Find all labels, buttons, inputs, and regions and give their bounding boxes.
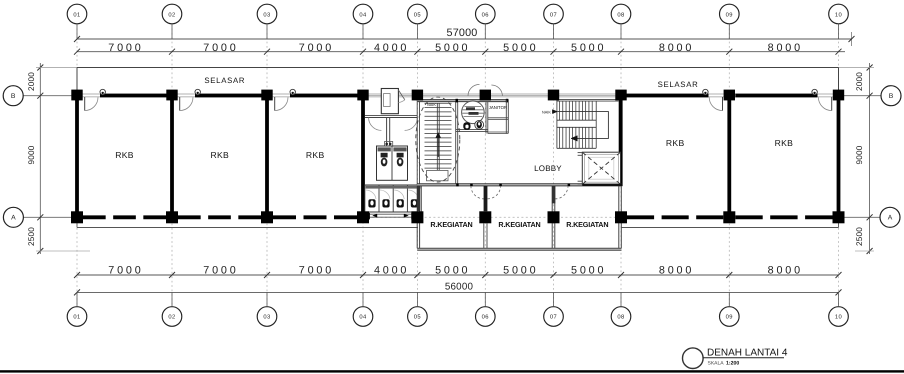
svg-text:05: 05: [414, 11, 421, 18]
lower edge left wing: [77, 227, 418, 229]
svg-text:2000: 2000: [27, 72, 36, 91]
svg-text:4000: 4000: [374, 265, 409, 277]
column squares row A: [71, 211, 83, 223]
svg-text:A: A: [11, 215, 16, 222]
svg-text:06: 06: [482, 11, 489, 18]
grid bubble 03 bottom: [257, 307, 277, 327]
svg-text:7000: 7000: [299, 265, 334, 277]
urinal fixture: [463, 122, 470, 130]
grid line column 05: [416, 24, 418, 307]
left stair ellipse: [416, 97, 460, 182]
dimension row bottom ticks: [74, 272, 80, 278]
row A wall bay 01-02: [83, 215, 166, 219]
row A wall bay 03-04: [273, 215, 357, 219]
svg-text:9000: 9000: [27, 145, 36, 164]
lobby door arc right of column 06: [488, 186, 501, 199]
kegiatan partition column 07: [551, 186, 553, 248]
svg-text:NAIK: NAIK: [542, 110, 551, 114]
kegiatan east wall: [618, 186, 620, 248]
svg-text:RKB: RKB: [306, 150, 325, 160]
grid bubble 01 top: [67, 4, 87, 24]
row B wall face lines: [77, 93, 839, 95]
svg-text:SELASAR: SELASAR: [204, 76, 245, 85]
svg-text:07: 07: [550, 11, 557, 18]
grid bubble 02 top: [162, 4, 182, 24]
wc fixture lower 2: [380, 190, 390, 199]
sheet frame bottom: [0, 370, 904, 372]
svg-text:SKALA: SKALA: [708, 361, 725, 367]
svg-text:10: 10: [835, 11, 842, 18]
door room 1 row B: [84, 97, 86, 111]
svg-text:NAIK: NAIK: [427, 103, 436, 107]
grid line column 07: [553, 24, 555, 307]
svg-text:10: 10: [835, 314, 842, 321]
title underline: [703, 357, 784, 359]
left stair steps: [425, 102, 452, 104]
wall column 03 vertical: [265, 97, 269, 215]
svg-text:R.KEGIATAN: R.KEGIATAN: [498, 220, 540, 229]
grid bubble 05 bottom: [408, 307, 428, 327]
right stair arrow path: [558, 112, 609, 139]
kegiatan partition column 06: [484, 186, 488, 211]
svg-text:2000: 2000: [855, 72, 864, 91]
wc fixture lower 3: [394, 190, 404, 199]
grid bubble 10 top: [829, 4, 849, 24]
svg-text:5000: 5000: [435, 42, 470, 54]
grid line column 02: [171, 24, 173, 92]
utility block east wall: [505, 100, 507, 134]
wall column 10 vertical: [837, 97, 841, 215]
grid bubble A right: [880, 207, 900, 227]
grid bubble 04 bottom: [353, 307, 373, 327]
svg-text:8000: 8000: [768, 265, 803, 277]
grid line column 06: [484, 24, 486, 307]
svg-text:09: 09: [726, 314, 733, 321]
pipe chase: [386, 118, 388, 147]
grid bubble 01 bottom: [67, 307, 87, 327]
svg-text:08: 08: [617, 314, 624, 321]
grid line column 03: [266, 24, 268, 92]
lobby door arc left of column 06: [471, 186, 484, 199]
dimension row bottom line: [77, 274, 839, 276]
grid bubble 03 top: [257, 4, 277, 24]
right stair steps: [557, 98, 619, 100]
svg-text:09: 09: [726, 11, 733, 18]
stair east wall: [455, 100, 457, 186]
svg-text:5000: 5000: [503, 42, 538, 54]
svg-text:A: A: [888, 215, 893, 222]
svg-text:07: 07: [550, 314, 557, 321]
grid bubble A left: [3, 207, 23, 227]
dimension row top line: [77, 51, 845, 53]
svg-text:01: 01: [73, 314, 80, 321]
grid line row A: [24, 216, 78, 218]
door right wing 2 row B: [831, 97, 833, 111]
svg-text:SELASAR: SELASAR: [658, 80, 699, 89]
dimension 57000 top: [77, 38, 852, 40]
svg-text:RKB: RKB: [211, 150, 230, 160]
grid bubble 09 top: [720, 4, 740, 24]
svg-text:04: 04: [359, 314, 367, 321]
title circle: [683, 348, 704, 369]
selasar outer edge: [77, 67, 839, 69]
round basin: [462, 101, 485, 124]
svg-text:03: 03: [263, 11, 270, 18]
wall column 04 vertical: [361, 97, 365, 215]
grid bubble 06 bottom: [476, 307, 496, 327]
grid line column 09: [728, 24, 730, 92]
svg-text:7000: 7000: [203, 42, 238, 54]
dimension row top ticks: [74, 49, 80, 55]
row B wall: [100, 94, 167, 98]
wc stall pair box: [377, 146, 408, 180]
svg-text:7000: 7000: [108, 42, 143, 54]
void shaft box: [582, 152, 620, 184]
svg-text:JANITOR: JANITOR: [489, 105, 507, 110]
shaft box: [381, 89, 398, 114]
wall column 02 vertical: [170, 97, 174, 215]
dimension line right: [869, 63, 871, 254]
svg-text:7000: 7000: [203, 265, 238, 277]
svg-text:5000: 5000: [503, 265, 538, 277]
svg-text:RKB: RKB: [666, 138, 685, 148]
lobby south wall: [417, 184, 621, 186]
svg-text:LOBBY: LOBBY: [534, 164, 562, 173]
void shaft door stubs: [578, 152, 583, 154]
svg-text:01: 01: [73, 11, 80, 18]
void shaft bottom edge: [582, 184, 621, 186]
dimension 56000 bottom: [77, 291, 839, 293]
svg-text:4000: 4000: [374, 42, 409, 54]
selasar door arcs column 06: [468, 84, 480, 96]
grid line column 01: [76, 24, 78, 92]
wc stall row box: [365, 185, 421, 212]
svg-text:08: 08: [617, 11, 624, 18]
svg-text:56000: 56000: [445, 281, 474, 292]
left stair arrow: [437, 136, 439, 157]
lower edge right wing: [621, 227, 839, 229]
svg-text:04: 04: [359, 11, 367, 18]
svg-text:B: B: [889, 93, 894, 100]
utility block south wall: [456, 129, 488, 131]
row A wall bay 08-09: [627, 215, 723, 219]
svg-text:2500: 2500: [855, 227, 864, 246]
grid line row B: [23, 95, 77, 97]
svg-text:8000: 8000: [768, 42, 803, 54]
wc fixture beside basin: [475, 120, 484, 129]
sliding door toilets: [370, 213, 412, 215]
column squares row B: [71, 90, 82, 101]
door right wing 1 row B: [722, 97, 724, 111]
svg-text:R.KEGIATAN: R.KEGIATAN: [566, 220, 608, 229]
dimension line left: [39, 63, 41, 254]
wc fixture lower 4: [408, 190, 418, 199]
wall column 08 vertical: [619, 97, 623, 186]
grid bubble 05 top: [408, 4, 428, 24]
svg-text:5000: 5000: [571, 265, 606, 277]
grid bubble 04 top: [353, 4, 373, 24]
wall column 09 vertical: [727, 97, 731, 215]
grid bubble 08 bottom: [611, 307, 631, 327]
toilet door left: [369, 118, 382, 131]
wall column 01 vertical: [75, 97, 79, 215]
void shaft diagonals: [582, 152, 620, 184]
svg-text:7000: 7000: [299, 42, 334, 54]
grid line column 08: [620, 24, 622, 307]
svg-text:DENAH LANTAI 4: DENAH LANTAI 4: [707, 348, 788, 359]
grid bubble 07 top: [544, 4, 564, 24]
svg-text:02: 02: [168, 11, 175, 18]
toilet door right: [405, 118, 418, 131]
grid bubble B right: [881, 86, 901, 106]
wc fixture upper 1: [381, 153, 388, 158]
toilet entry wall: [365, 115, 417, 117]
svg-text:8000: 8000: [659, 42, 694, 54]
svg-text:03: 03: [263, 314, 270, 321]
stair west wall: [416, 100, 418, 186]
svg-text:RKB: RKB: [775, 138, 794, 148]
svg-text:1:200: 1:200: [726, 361, 739, 367]
janitor partition: [485, 102, 487, 134]
grid bubble 09 bottom: [720, 307, 740, 327]
svg-text:B: B: [11, 93, 16, 100]
door room 2 row B: [179, 97, 181, 111]
svg-text:5000: 5000: [435, 265, 470, 277]
svg-text:7000: 7000: [108, 265, 143, 277]
kegiatan west wall: [416, 186, 418, 248]
grid bubble 10 bottom: [829, 307, 849, 327]
grid bubble B left: [3, 86, 23, 106]
grid bubble 07 bottom: [544, 307, 564, 327]
grid bubble 02 bottom: [162, 307, 182, 327]
utility block top wall: [417, 100, 508, 102]
grid line column 04: [362, 24, 364, 307]
svg-text:9000: 9000: [855, 145, 864, 164]
svg-text:57000: 57000: [446, 27, 477, 39]
svg-text:2500: 2500: [27, 227, 36, 246]
svg-text:05: 05: [414, 314, 421, 321]
grid bubble 06 top: [476, 4, 496, 24]
svg-text:02: 02: [168, 314, 175, 321]
grid line column 10: [838, 24, 840, 92]
svg-text:R.KEGIATAN: R.KEGIATAN: [430, 220, 472, 229]
svg-text:RKB: RKB: [115, 150, 134, 160]
svg-text:06: 06: [482, 314, 489, 321]
row A wall bay 09-10: [735, 215, 832, 219]
wc fixture lower 1: [366, 190, 376, 199]
grid bubble 08 top: [611, 4, 631, 24]
wc fixture upper 2: [397, 153, 404, 158]
svg-text:8000: 8000: [659, 265, 694, 277]
lobby door arc right of column 07: [555, 186, 568, 199]
svg-text:5000: 5000: [571, 42, 606, 54]
kegiatan bottom wall: [417, 249, 621, 251]
door room 3 row B: [274, 97, 276, 111]
row A wall bay 02-03: [178, 215, 261, 219]
